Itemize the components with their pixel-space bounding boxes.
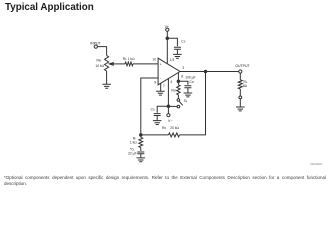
ground under CS xyxy=(173,54,182,58)
wire Rb to pin 10 xyxy=(133,63,158,65)
wire pin8 to CM xyxy=(178,81,188,85)
wire input to pot xyxy=(97,47,106,56)
svg-text:RM: RM xyxy=(171,88,175,92)
V- terminal xyxy=(167,114,173,124)
svg-text:CS: CS xyxy=(151,108,155,112)
svg-text:22 µF: 22 µF xyxy=(128,151,137,155)
wire RL to terminal xyxy=(239,89,241,96)
ground under Ci xyxy=(137,158,146,162)
node V+ junction xyxy=(166,37,169,40)
wire switch to V- node xyxy=(168,105,177,107)
INPUT terminal xyxy=(90,42,101,49)
speaker terminal xyxy=(239,96,242,99)
pin 8 stub xyxy=(177,73,179,85)
svg-text:8Ω: 8Ω xyxy=(243,84,248,88)
svg-text:3: 3 xyxy=(182,66,184,70)
capacitor CS (V- bypass) xyxy=(151,108,161,116)
output wire xyxy=(180,71,239,73)
wire CS2 to ground xyxy=(156,116,158,121)
svg-text:Rf1: Rf1 xyxy=(162,126,167,130)
svg-text:100 µF: 100 µF xyxy=(185,75,195,79)
ground under RIN xyxy=(102,84,111,88)
wire CS to ground xyxy=(176,49,178,54)
node pin8 junction xyxy=(177,80,180,83)
svg-text:OUTPUT: OUTPUT xyxy=(235,64,250,68)
capacitor Ci 22uF xyxy=(128,147,144,155)
svg-text:+: + xyxy=(160,63,162,67)
svg-text:CS: CS xyxy=(181,40,185,44)
svg-text:10: 10 xyxy=(152,58,156,62)
pin 9 feedback wire xyxy=(141,78,158,135)
pin 7 stub xyxy=(160,83,162,91)
svg-text:1,5: 1,5 xyxy=(170,58,175,62)
wire output to RL xyxy=(239,73,241,80)
svg-text:RIN: RIN xyxy=(97,59,102,63)
wire to CS xyxy=(167,38,177,46)
wire Ci to ground xyxy=(140,154,142,158)
wire CM to ground xyxy=(187,88,189,93)
resistor Rf1 20k xyxy=(162,126,180,137)
svg-text:4: 4 xyxy=(170,80,172,84)
svg-text:20 kΩ: 20 kΩ xyxy=(170,126,179,130)
V+ terminal xyxy=(165,25,169,32)
svg-text:1 kΩ: 1 kΩ xyxy=(130,140,137,144)
ground under CS2 xyxy=(153,121,162,125)
ground under pin 7 xyxy=(156,91,165,95)
resistor Ri 1k xyxy=(130,135,143,148)
svg-text:S1: S1 xyxy=(184,99,188,103)
wire V+ down xyxy=(166,31,168,64)
OUTPUT terminal xyxy=(235,64,250,73)
capacitor CM 100uF xyxy=(184,75,195,87)
node feedback junction xyxy=(140,134,143,137)
op-amp U1 LM3886 xyxy=(158,58,180,85)
wire V- to CS2 xyxy=(157,106,168,112)
bottom feedback wire right xyxy=(180,72,206,135)
resistor Rb 1k xyxy=(123,57,135,66)
svg-text:−: − xyxy=(160,77,162,81)
resistor RM xyxy=(171,85,180,100)
wire terminal to ground xyxy=(239,99,241,107)
capacitor CS (V+ bypass) xyxy=(174,40,186,50)
svg-text:1 kΩ: 1 kΩ xyxy=(128,57,135,61)
switch S1 xyxy=(177,99,188,108)
svg-text:9: 9 xyxy=(154,81,156,85)
svg-text:CM: CM xyxy=(189,80,193,84)
node output junction xyxy=(204,70,207,73)
pin 4 / V- stub xyxy=(167,78,169,113)
svg-text:7: 7 xyxy=(163,84,165,88)
ground under RL xyxy=(236,107,245,111)
ground under CM xyxy=(184,93,193,97)
bottom feedback wire left xyxy=(141,134,169,136)
node V- junction xyxy=(167,105,170,108)
potentiometer RIN 10k xyxy=(95,56,113,72)
svg-text:V−: V− xyxy=(168,119,172,123)
wire pot bottom to ground xyxy=(106,71,108,84)
svg-text:8: 8 xyxy=(181,75,183,79)
resistor RL 8 ohm xyxy=(238,80,248,89)
svg-text:10 kΩ: 10 kΩ xyxy=(95,64,104,68)
svg-text:Rb: Rb xyxy=(123,57,127,61)
wire wiper to Rb xyxy=(113,63,126,65)
